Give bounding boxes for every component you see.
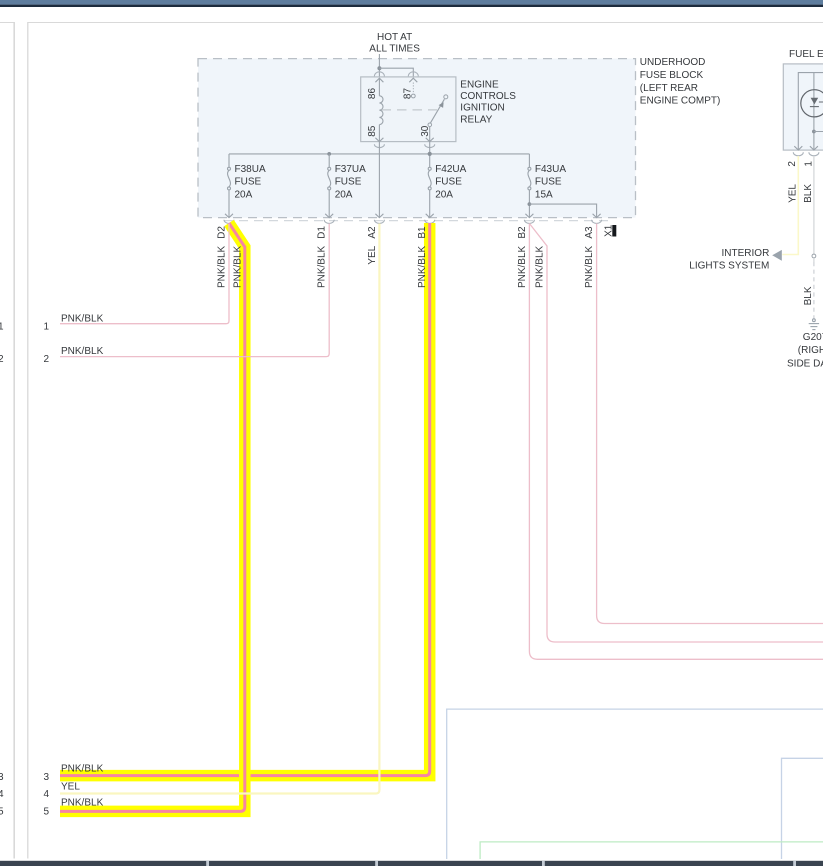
sender symbol bar [810,106,819,108]
svg-text:PNK/BLK: PNK/BLK [61,313,104,324]
svg-text:B1: B1 [417,226,428,239]
svg-text:2: 2 [787,161,798,167]
svg-text:BLK: BLK [803,286,814,305]
connector arc below pin 85 [374,144,384,147]
app top toolbar [0,0,823,5]
svg-text:UNDERHOOD: UNDERHOOD [640,57,706,68]
pin 87 terminal circle [411,94,415,98]
svg-text:FUSE BLOCK: FUSE BLOCK [640,70,704,81]
svg-text:PNK/BLK: PNK/BLK [317,245,328,288]
svg-text:4: 4 [44,789,50,800]
svg-text:ALL TIMES: ALL TIMES [369,44,420,55]
arrow out of pin 30 [426,138,434,142]
svg-text:CONTROLS: CONTROLS [460,91,516,102]
svg-text:1: 1 [0,321,4,332]
wire YEL to interior lights [782,156,798,255]
connector arc pin 87 [408,72,418,77]
connector arc B1 [425,220,435,224]
svg-text:1: 1 [803,161,814,167]
fuse F38UA [228,154,231,218]
svg-text:G207: G207 [803,332,823,343]
svg-text:30: 30 [420,125,431,137]
wire PNK/BLK D2 to row 1 [60,224,229,324]
svg-text:A3: A3 [584,226,595,239]
wire YEL A2 to row 4 [60,224,379,794]
fuse F37UA [328,154,331,218]
wire BLK dashed to ground [813,262,815,319]
wire feed branch to pin 87 [379,68,413,76]
svg-text:3: 3 [44,772,50,783]
svg-text:YEL: YEL [367,245,378,264]
fuel sender component box [783,64,823,150]
svg-text:2: 2 [44,354,50,365]
svg-text:20A: 20A [235,189,253,200]
wire BLK lower [813,258,815,262]
connector arc D2 [224,220,234,224]
arrow exit A3 [593,214,601,218]
pin 86 lead [378,79,380,96]
svg-text:87: 87 [403,88,414,100]
interior lights system arrow [772,250,782,261]
svg-text:FUSE: FUSE [335,177,362,188]
node F43 to A3 branch [528,202,532,206]
svg-text:SIDE DAS: SIDE DAS [787,359,823,370]
arrow exit D1 [325,214,333,218]
svg-text:FUSE: FUSE [435,177,462,188]
arrow into pin 86 [375,78,383,82]
svg-text:PNK/BLK: PNK/BLK [61,346,104,357]
svg-text:D1: D1 [317,226,328,239]
internal branch wire [814,131,823,133]
wire pin 85 to A2 exit [378,142,380,218]
svg-text:2: 2 [0,354,4,365]
wire branch to A3 exit [529,204,596,218]
svg-text:FUSE: FUSE [235,177,262,188]
svg-text:X1: X1 [604,224,615,237]
wire BLK upper [813,156,815,254]
svg-text:D2: D2 [217,226,228,239]
svg-text:4: 4 [0,789,4,800]
wire PNK/BLK B2 first [529,224,823,660]
svg-text:85: 85 [367,125,378,137]
connector arc below pin 1 [809,152,819,156]
ground G207 symbol [809,319,819,330]
svg-text:86: 86 [367,88,378,100]
wire PNK/BLK D1 to row 2 [60,224,329,357]
fuse F42UA [428,167,431,217]
switch arm from pin 30 [430,99,444,123]
arrow out of pin 2 [794,146,802,150]
node bus-F37 [327,152,331,156]
internal wire pin 2 [798,73,823,150]
connector arc A3 [592,220,602,224]
highlighted wire PNK/BLK D2 to row 5 [60,223,245,811]
svg-text:5: 5 [0,806,4,817]
pin 30 pivot circle [428,123,432,127]
svg-text:PNK/BLK: PNK/BLK [535,245,546,288]
arrow exit B1 [426,214,434,218]
svg-text:PNK/BLK: PNK/BLK [417,245,428,288]
inner module blue box [782,758,823,859]
svg-text:IGNITION: IGNITION [460,103,504,114]
svg-text:15A: 15A [535,189,553,200]
arrow exit B2 [525,214,533,218]
internal wire pin 1 [813,73,815,150]
green connector box [480,842,823,859]
svg-text:RELAY: RELAY [460,114,492,125]
previous page right edge [13,22,15,859]
svg-text:PNK/BLK: PNK/BLK [61,797,104,808]
wire B+ feed down from HOT AT ALL TIMES [378,54,380,76]
svg-text:YEL: YEL [788,184,799,203]
svg-text:INTERIOR: INTERIOR [722,248,770,259]
wire PNK/BLK A3 [597,224,823,624]
svg-text:F38UA: F38UA [235,164,266,175]
sender symbol circle [801,90,823,117]
app bottom bar [0,861,823,866]
relay internal dashed link [382,109,438,111]
relay U1 box [361,77,456,142]
svg-text:F43UA: F43UA [535,164,566,175]
pin 30 lead [429,127,431,142]
sender symbol triangle [811,98,819,105]
arrow out of pin 1 [810,146,818,150]
svg-text:FUEL EN: FUEL EN [789,49,823,60]
svg-text:F37UA: F37UA [335,164,366,175]
connector arc pin 86 [374,72,384,77]
svg-text:ENGINE COMPT): ENGINE COMPT) [640,96,721,107]
relay coil L1 [379,96,383,125]
svg-text:PNK/BLK: PNK/BLK [217,245,228,288]
connector arc A2 [374,220,384,224]
wire PNK/BLK B2 second [529,224,823,643]
fuse F43UA [528,154,531,218]
svg-text:A2: A2 [367,226,378,239]
node inside fuel box [812,130,816,134]
arrow exit A2 [375,214,383,218]
fuse bus [229,153,529,155]
page frame top border [0,22,14,24]
svg-text:PNK/BLK: PNK/BLK [232,245,243,288]
svg-text:FUSE: FUSE [535,177,562,188]
lower module blue box [447,709,823,859]
inline connector circle on BLK [812,254,816,258]
svg-text:(LEFT REAR: (LEFT REAR [640,83,698,94]
highlighted wire PNK/BLK B1 to row 3 [60,223,430,776]
pin 87 stationary contact lead (dotted) [412,83,414,94]
svg-text:BLK: BLK [803,184,814,203]
arrow into pin 87 [409,78,417,82]
svg-text:B2: B2 [517,226,528,239]
X1 connector strip dashed line [224,220,611,222]
switch stationary contact circle [444,95,448,99]
svg-text:F42UA: F42UA [435,164,466,175]
svg-text:PNK/BLK: PNK/BLK [584,245,595,288]
node feed split [377,66,381,70]
svg-text:5: 5 [44,806,50,817]
exit arrows through X1 strip [225,214,601,218]
svg-text:ENGINE: ENGINE [460,79,499,90]
wire pin 30 to bus [429,142,431,168]
underhood fuse block dashed box [198,59,636,218]
connector arc below pin 2 [793,152,803,156]
svg-text:HOT AT: HOT AT [377,32,412,43]
svg-text:PNK/BLK: PNK/BLK [61,763,104,774]
switch arm arrowhead [439,102,444,108]
connector arc B2 [524,220,534,224]
svg-text:20A: 20A [335,189,353,200]
X1 connector end bar [612,225,616,237]
pin 85 lead [378,125,380,142]
arrow out of pin 85 [375,138,383,142]
svg-text:(RIGHT: (RIGHT [798,345,823,356]
svg-text:LIGHTS SYSTEM: LIGHTS SYSTEM [689,260,769,271]
svg-text:1: 1 [44,321,50,332]
node bus-pin30 [428,152,432,156]
svg-text:YEL: YEL [61,781,80,792]
connector arc D1 [324,220,334,224]
svg-text:20A: 20A [435,189,453,200]
svg-text:3: 3 [0,772,4,783]
arrow exit D2 [225,214,233,218]
page frame left border [27,22,29,859]
connector arc below pin 30 [425,144,435,147]
svg-text:PNK/BLK: PNK/BLK [517,245,528,288]
